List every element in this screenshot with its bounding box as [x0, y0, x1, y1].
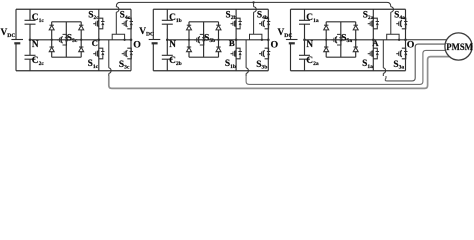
svg-text:C2a: C2a [306, 56, 319, 67]
svg-text:S1c: S1c [88, 59, 99, 70]
module 3 (phase a) [286, 7, 408, 76]
svg-text:S4c: S4c [120, 11, 131, 22]
svg-text:S1b: S1b [225, 59, 236, 70]
svg-text:N: N [306, 39, 313, 49]
wire: module2 feed to PMSM [246, 50, 446, 84]
svg-text:S4a: S4a [394, 11, 405, 22]
svg-text:S4b: S4b [257, 11, 268, 22]
svg-text:S3b: S3b [256, 60, 267, 71]
svg-text:C: C [92, 38, 98, 48]
svg-text:N: N [32, 39, 39, 49]
svg-text:B: B [229, 38, 235, 48]
svg-text:S2a: S2a [363, 10, 374, 21]
wire: phase a output to PMSM [406, 39, 447, 41]
module 2 labels [139, 10, 278, 70]
wire: common bus joining module risers [116, 2, 391, 6]
svg-text:O: O [133, 39, 141, 50]
svg-text:S5c: S5c [67, 33, 78, 44]
module 1 labels [1, 10, 142, 70]
svg-text:C2b: C2b [169, 56, 182, 67]
svg-text:O: O [407, 39, 415, 50]
svg-text:C2c: C2c [32, 56, 45, 67]
svg-text:C1b: C1b [169, 13, 182, 24]
svg-text:C1a: C1a [306, 13, 319, 24]
module 2 (phase b) [149, 7, 271, 76]
svg-text:S5b: S5b [204, 33, 215, 44]
svg-text:S1a: S1a [362, 59, 373, 70]
svg-text:S3a: S3a [393, 60, 404, 71]
wire: module1 feed to PMSM [109, 57, 450, 89]
module 1 (phase c) [11, 7, 133, 76]
svg-text:VDC: VDC [1, 28, 16, 39]
svg-text:VDC: VDC [139, 27, 154, 38]
svg-text:S3c: S3c [119, 60, 130, 71]
svg-text:C1c: C1c [32, 13, 45, 24]
PMSM motor circle [445, 33, 472, 60]
svg-text:O: O [271, 39, 279, 50]
svg-text:PMSM: PMSM [446, 42, 473, 53]
svg-text:S2c: S2c [88, 10, 99, 21]
module 3 labels [278, 10, 415, 70]
svg-text:S5a: S5a [341, 33, 352, 44]
svg-text:A: A [372, 38, 379, 48]
svg-text:N: N [169, 39, 176, 49]
junction: module2 riser to bus [253, 2, 255, 6]
svg-text:S2b: S2b [226, 10, 237, 21]
wire: module3 feed to PMSM [385, 44, 445, 81]
